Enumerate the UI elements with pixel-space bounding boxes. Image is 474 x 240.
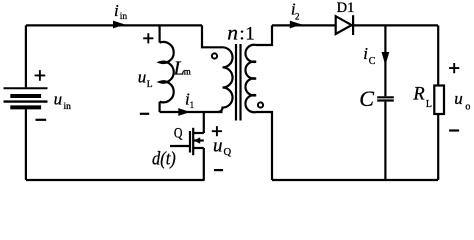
wire primary bottom (i1 wire)	[160, 111, 223, 113]
svg-text:C: C	[359, 86, 374, 111]
svg-text:R: R	[412, 85, 424, 105]
svg-text:D1: D1	[337, 0, 355, 16]
svg-text:u: u	[138, 67, 147, 86]
transformer secondary bottom wire	[256, 112, 272, 180]
wire L_m branch top	[159, 25, 161, 42]
battery U_in	[4, 88, 48, 107]
svg-text:1: 1	[245, 24, 254, 44]
MOSFET Q drain wire	[203, 112, 205, 133]
svg-text:i: i	[363, 44, 368, 63]
plus battery	[35, 70, 46, 81]
arrow i_C	[382, 52, 390, 66]
svg-text:L: L	[426, 99, 432, 110]
transformer secondary winding	[245, 45, 256, 112]
arrow i_1	[178, 108, 190, 116]
svg-text:1: 1	[190, 100, 195, 110]
wire capacitor branch lower	[384, 102, 386, 180]
plus u_L	[143, 33, 153, 43]
svg-text:n: n	[227, 20, 238, 44]
MOSFET Q middle stub	[193, 139, 204, 141]
MOSFET Q gate wire	[170, 145, 190, 147]
arrow i_2	[290, 21, 302, 29]
transformer core	[236, 44, 241, 121]
svg-text:C: C	[369, 56, 376, 67]
svg-text:m: m	[184, 67, 191, 77]
arrow MOSFET source	[194, 137, 200, 143]
transformer dot secondary	[258, 102, 263, 107]
wire left vertical lower	[25, 109, 27, 180]
wire bottom rail primary	[26, 179, 205, 181]
svg-text:Q: Q	[174, 126, 183, 142]
wire bottom rail secondary	[272, 179, 438, 181]
svg-text:L: L	[147, 80, 153, 90]
MOSFET Q drain stub	[193, 132, 204, 134]
transformer primary top wire	[202, 25, 223, 47]
minus u_Q	[214, 169, 223, 171]
MOSFET Q gate bar	[189, 131, 191, 153]
plus u_Q	[212, 126, 222, 136]
svg-text:Q: Q	[224, 147, 232, 158]
resistor R_L box	[434, 86, 444, 115]
wire right branch upper	[437, 25, 439, 85]
MOSFET Q source stub	[193, 147, 204, 149]
svg-text:o: o	[465, 102, 470, 113]
minus u_L	[140, 113, 149, 115]
minus battery	[36, 119, 47, 121]
svg-text:2: 2	[295, 12, 300, 22]
arrow i_in	[113, 21, 125, 29]
plus u_o	[449, 63, 459, 73]
capacitor C plates	[377, 96, 394, 98]
transformer primary winding	[218, 47, 232, 112]
svg-text:in: in	[64, 102, 72, 112]
svg-text:d(t): d(t)	[152, 149, 176, 169]
transformer dot primary	[212, 53, 217, 58]
diode D1	[336, 16, 352, 34]
minus u_o	[449, 129, 459, 131]
svg-text:in: in	[120, 12, 128, 22]
wire capacitor branch upper	[384, 25, 386, 96]
inductor L_m	[160, 42, 174, 102]
wire top rail right	[272, 24, 438, 26]
wire right branch lower	[437, 114, 439, 180]
svg-text:i: i	[114, 1, 119, 20]
MOSFET Q source wire	[203, 148, 205, 180]
svg-text:u: u	[54, 90, 63, 109]
wire left vertical upper	[25, 25, 27, 87]
svg-text::: :	[239, 23, 244, 44]
MOSFET Q channel bar	[192, 128, 194, 155]
wire L_m branch bottom	[159, 102, 161, 112]
transformer secondary top wire	[256, 25, 272, 45]
svg-text:u: u	[454, 89, 463, 108]
svg-text:u: u	[213, 136, 223, 157]
wire top rail left	[26, 24, 202, 26]
